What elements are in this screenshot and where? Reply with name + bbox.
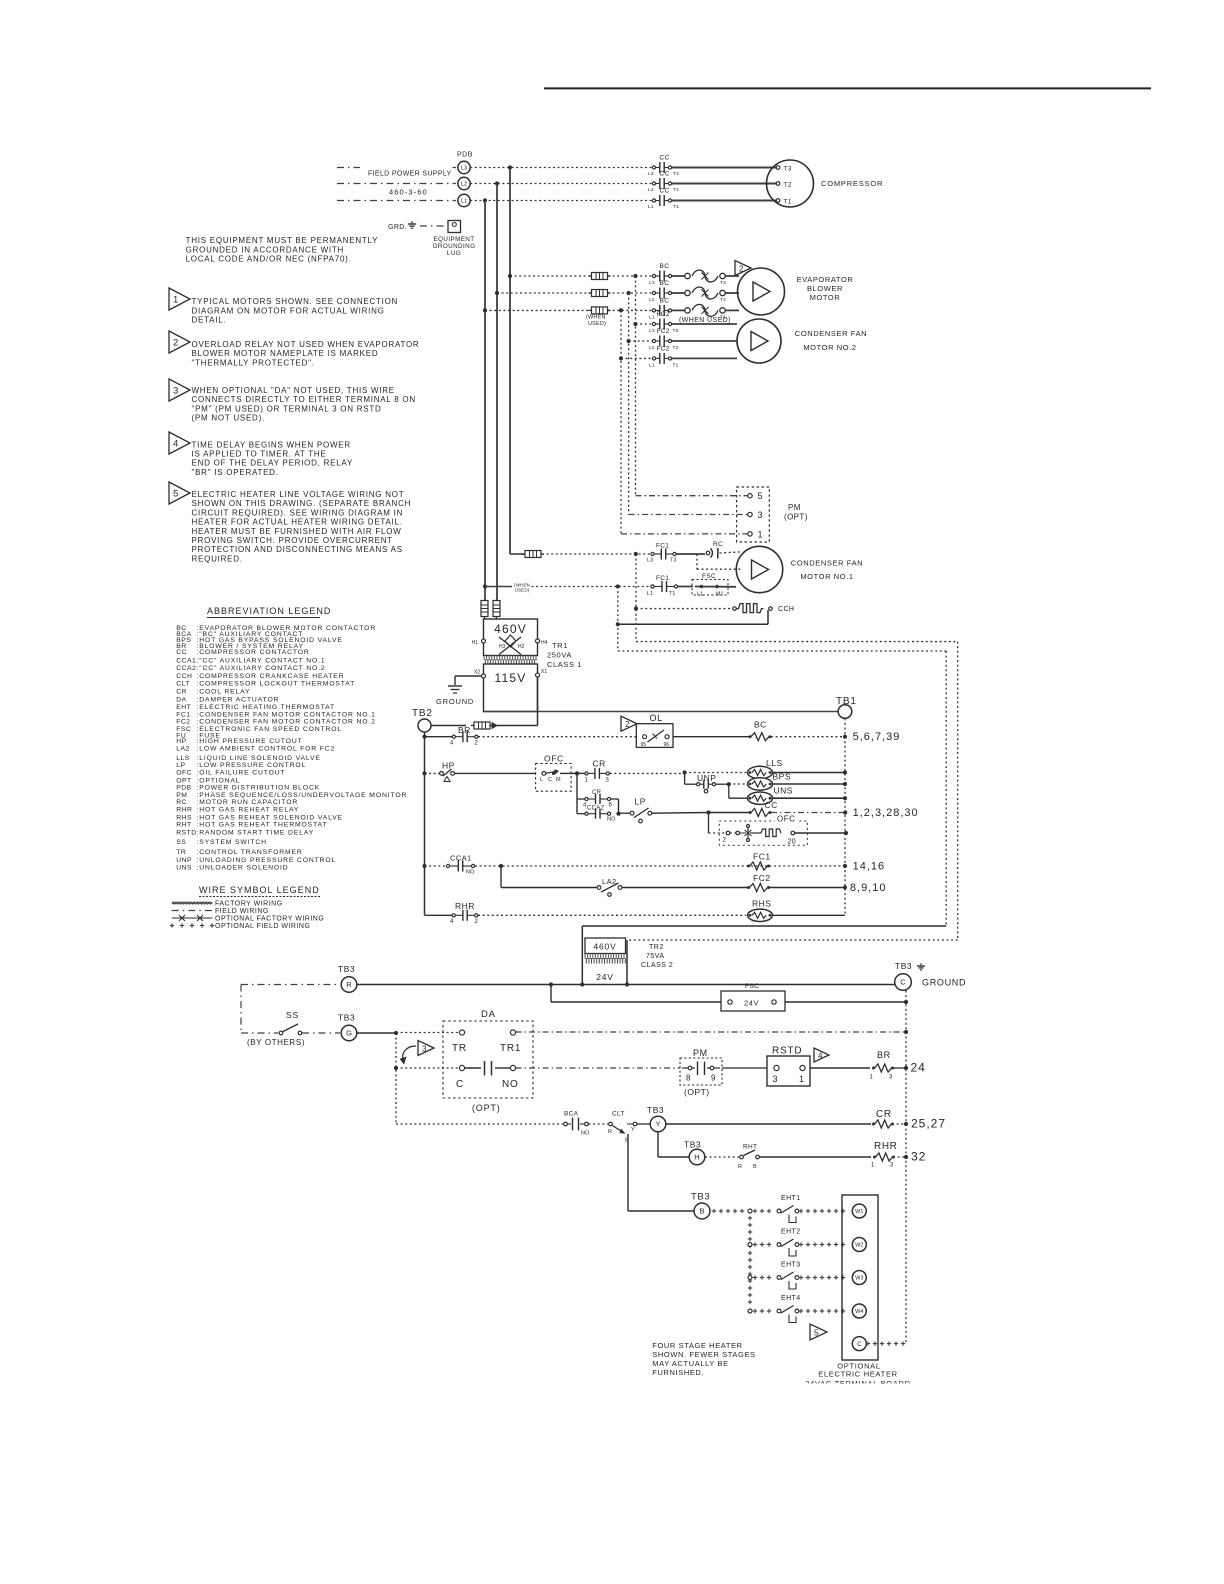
- svg-text:REQUIRED.: REQUIRED.: [192, 554, 243, 563]
- svg-text::RANDOM START TIME DELAY: :RANDOM START TIME DELAY: [197, 830, 315, 837]
- svg-text:2: 2: [625, 720, 630, 729]
- svg-text:UNP: UNP: [176, 857, 192, 864]
- svg-text:NO: NO: [581, 1131, 590, 1137]
- svg-text:3: 3: [173, 385, 178, 396]
- svg-text:OFC: OFC: [544, 754, 564, 764]
- svg-text:RSTD: RSTD: [176, 830, 197, 837]
- svg-text:CLT: CLT: [612, 1111, 625, 1118]
- svg-text::HOT GAS REHEAT THERMOSTAT: :HOT GAS REHEAT THERMOSTAT: [197, 822, 328, 829]
- svg-text:CCA1: CCA1: [450, 854, 472, 863]
- svg-text:CIRCUIT REQUIRED). SEE WIRING: CIRCUIT REQUIRED). SEE WIRING DIAGRAM IN: [192, 508, 404, 517]
- svg-text:14,16: 14,16: [853, 861, 886, 873]
- svg-text:OL: OL: [650, 713, 663, 723]
- svg-text::"CC" AUXILIARY CONTACT NO.1: :"CC" AUXILIARY CONTACT NO.1: [197, 658, 326, 665]
- svg-text:W4: W4: [855, 1309, 863, 1315]
- svg-text:BC: BC: [660, 280, 670, 287]
- svg-text:T1: T1: [673, 204, 679, 210]
- svg-text:FC2: FC2: [657, 346, 670, 353]
- svg-text:T3: T3: [673, 171, 679, 177]
- svg-text:L1: L1: [648, 204, 654, 210]
- svg-text:(OPT): (OPT): [684, 1087, 710, 1097]
- svg-text:CR: CR: [593, 759, 606, 769]
- svg-text:PM: PM: [788, 503, 801, 512]
- svg-text:2: 2: [739, 264, 744, 273]
- svg-text:CLASS 2: CLASS 2: [641, 962, 673, 969]
- svg-text:R: R: [608, 1129, 612, 1135]
- svg-text:RC: RC: [176, 799, 187, 806]
- svg-text::POWER DISTRIBUTION BLOCK: :POWER DISTRIBUTION BLOCK: [197, 785, 321, 792]
- svg-text:RHR: RHR: [874, 1141, 897, 1152]
- svg-text:6: 6: [609, 803, 613, 809]
- svg-text:ABBREVIATION LEGEND: ABBREVIATION LEGEND: [207, 606, 331, 616]
- svg-text:BLOWER: BLOWER: [807, 284, 843, 293]
- svg-text:EHT4: EHT4: [781, 1295, 801, 1302]
- svg-text:GROUNDING: GROUNDING: [433, 243, 476, 250]
- svg-text:8,9,10: 8,9,10: [850, 882, 887, 894]
- svg-text:EHT: EHT: [176, 704, 191, 711]
- svg-text:L1: L1: [461, 199, 467, 205]
- svg-text:1,2,3,28,30: 1,2,3,28,30: [853, 807, 919, 819]
- svg-text:MAY ACTUALLY BE: MAY ACTUALLY BE: [652, 1359, 728, 1368]
- svg-text:EVAPORATOR: EVAPORATOR: [797, 275, 854, 284]
- svg-text:OFC: OFC: [777, 815, 795, 824]
- svg-text:OPTIONAL FACTORY WIRING: OPTIONAL FACTORY WIRING: [215, 916, 324, 923]
- svg-text::UNLOADER SOLENOID: :UNLOADER SOLENOID: [197, 865, 289, 872]
- svg-text:CCH: CCH: [176, 673, 192, 680]
- svg-text:M1: M1: [716, 592, 724, 598]
- svg-text:20: 20: [788, 839, 796, 846]
- svg-text::OIL FAILURE CUTOUT: :OIL FAILURE CUTOUT: [197, 769, 286, 776]
- svg-text:8: 8: [686, 1074, 691, 1083]
- svg-text:T2: T2: [673, 187, 679, 193]
- svg-text:L1: L1: [649, 362, 655, 368]
- svg-text:T3: T3: [670, 558, 676, 564]
- svg-text:4: 4: [450, 740, 454, 746]
- svg-text:LOCAL CODE AND/OR NEC (NFPA70): LOCAL CODE AND/OR NEC (NFPA70).: [186, 255, 352, 264]
- svg-text:CCA2: CCA2: [587, 806, 605, 812]
- svg-text:LUG: LUG: [447, 250, 461, 257]
- svg-text:M: M: [556, 777, 561, 783]
- svg-text:TYPICAL MOTORS SHOWN. SEE CONN: TYPICAL MOTORS SHOWN. SEE CONNECTION: [192, 297, 399, 306]
- svg-text:B: B: [753, 1164, 757, 1170]
- svg-text:32: 32: [911, 1150, 926, 1164]
- svg-text:T1: T1: [673, 362, 679, 368]
- svg-text:PDB: PDB: [176, 785, 191, 792]
- svg-text:CCH: CCH: [778, 606, 794, 613]
- svg-text:DIAGRAM ON MOTOR FOR ACTUAL WI: DIAGRAM ON MOTOR FOR ACTUAL WIRING: [192, 306, 385, 315]
- svg-text:GRD.: GRD.: [388, 224, 407, 231]
- svg-text:(WHEN USED): (WHEN USED): [679, 317, 731, 324]
- svg-text:TIME DELAY BEGINS WHEN POWER: TIME DELAY BEGINS WHEN POWER: [192, 440, 351, 449]
- svg-text:OVERLOAD RELAY NOT USED WHEN E: OVERLOAD RELAY NOT USED WHEN EVAPORATOR: [192, 340, 420, 349]
- svg-text:HP: HP: [442, 761, 455, 771]
- svg-text::SYSTEM SWITCH: :SYSTEM SWITCH: [197, 839, 267, 846]
- svg-text:24: 24: [911, 1061, 926, 1075]
- svg-text:W2: W2: [855, 1243, 863, 1249]
- svg-text:WIRE SYMBOL LEGEND: WIRE SYMBOL LEGEND: [199, 885, 320, 895]
- svg-text:H2: H2: [518, 644, 525, 650]
- svg-text::ELECTRIC HEATING THERMOSTAT: :ELECTRIC HEATING THERMOSTAT: [197, 704, 335, 711]
- svg-text:FURNISHED.: FURNISHED.: [652, 1368, 704, 1377]
- svg-text:5: 5: [173, 488, 178, 499]
- svg-text::HIGH PRESSURE CUTOUT: :HIGH PRESSURE CUTOUT: [197, 738, 303, 745]
- svg-text::COMPRESSOR CRANKCASE HEATER: :COMPRESSOR CRANKCASE HEATER: [197, 673, 345, 680]
- svg-text:24V: 24V: [744, 998, 759, 1007]
- svg-text:SS: SS: [176, 839, 186, 846]
- svg-text:SS: SS: [286, 1010, 299, 1020]
- svg-text:115V: 115V: [495, 671, 527, 685]
- svg-text:460V: 460V: [494, 622, 527, 636]
- svg-text:CR: CR: [592, 790, 602, 796]
- svg-text:ELECTRIC HEATER LINE VOLTAGE W: ELECTRIC HEATER LINE VOLTAGE WIRING NOT: [192, 490, 405, 499]
- svg-text:RHT: RHT: [743, 1144, 757, 1151]
- svg-text:LLS: LLS: [176, 755, 190, 762]
- svg-text:CC: CC: [660, 171, 670, 178]
- svg-text:3: 3: [889, 1075, 893, 1081]
- svg-text:CC: CC: [765, 800, 778, 810]
- svg-text:FACTORY WIRING: FACTORY WIRING: [215, 901, 283, 908]
- svg-text:X2: X2: [474, 670, 480, 676]
- svg-text:FIELD WIRING: FIELD WIRING: [215, 908, 269, 915]
- svg-text:EHT1: EHT1: [781, 1195, 801, 1202]
- svg-text::CONDENSER FAN MOTOR CONTACTOR: :CONDENSER FAN MOTOR CONTACTOR NO.1: [197, 711, 376, 718]
- svg-text:DA: DA: [176, 697, 186, 704]
- svg-text:HEATER MUST BE FURNISHED WITH: HEATER MUST BE FURNISHED WITH AIR FLOW: [192, 527, 402, 536]
- svg-text:4: 4: [818, 1051, 823, 1060]
- svg-text:FC1: FC1: [176, 711, 190, 718]
- svg-text:FC2: FC2: [657, 311, 670, 318]
- svg-text::COOL RELAY: :COOL RELAY: [197, 688, 251, 695]
- svg-text:C: C: [857, 1342, 862, 1348]
- svg-text:END OF THE DELAY PERIOD, RELAY: END OF THE DELAY PERIOD, RELAY: [192, 459, 354, 468]
- svg-text::"CC" AUXILIARY CONTACT NO.2: :"CC" AUXILIARY CONTACT NO.2: [197, 665, 326, 672]
- svg-text:4: 4: [173, 438, 178, 449]
- svg-text:BC: BC: [660, 298, 670, 305]
- svg-text:(OPT): (OPT): [784, 513, 808, 522]
- svg-text:(OPT): (OPT): [472, 1103, 501, 1113]
- svg-text:OPT: OPT: [176, 777, 191, 784]
- svg-text:W3: W3: [855, 1276, 863, 1282]
- svg-text:TR1: TR1: [552, 641, 568, 650]
- svg-text:HEATER FOR ACTUAL HEATER WIRIN: HEATER FOR ACTUAL HEATER WIRING DETAIL.: [192, 518, 403, 527]
- svg-text:FC1: FC1: [753, 852, 771, 862]
- svg-text:L1: L1: [647, 591, 653, 597]
- svg-text:L2: L2: [649, 297, 655, 303]
- svg-text:SHOWN ON THIS DRAWING. (SEPARA: SHOWN ON THIS DRAWING. (SEPARATE BRANCH: [192, 499, 412, 508]
- svg-text:L3: L3: [647, 558, 653, 564]
- svg-text:1: 1: [871, 1163, 875, 1169]
- svg-text:1: 1: [585, 777, 589, 783]
- svg-text:BC: BC: [754, 720, 767, 730]
- svg-text:BPS: BPS: [773, 772, 792, 782]
- svg-text:T3: T3: [673, 328, 679, 334]
- svg-text:OFC: OFC: [176, 769, 192, 776]
- svg-text:CONDENSER FAN: CONDENSER FAN: [791, 559, 863, 568]
- svg-text:BC: BC: [660, 263, 670, 270]
- svg-text:CCA2: CCA2: [176, 665, 196, 672]
- svg-text:Y: Y: [655, 1120, 660, 1129]
- svg-text:W1: W1: [855, 1209, 863, 1215]
- svg-text:EQUIPMENT: EQUIPMENT: [433, 236, 474, 243]
- svg-text:T1: T1: [784, 199, 792, 206]
- svg-text:MOTOR NO.2: MOTOR NO.2: [803, 343, 856, 352]
- svg-text:T1: T1: [669, 591, 675, 597]
- svg-text:PROVING SWITCH. PROVIDE OVERCU: PROVING SWITCH. PROVIDE OVERCURRENT: [192, 536, 393, 545]
- svg-text::OPTIONAL: :OPTIONAL: [197, 777, 241, 784]
- svg-text:TB2: TB2: [412, 708, 433, 719]
- svg-text:"THERMALLY PROTECTED".: "THERMALLY PROTECTED".: [192, 358, 315, 367]
- svg-text:CCA1: CCA1: [176, 658, 196, 665]
- svg-text:USED): USED): [515, 587, 530, 592]
- svg-text:TB3: TB3: [684, 1140, 701, 1150]
- svg-text:250VA: 250VA: [547, 651, 572, 660]
- svg-text:1: 1: [799, 1074, 804, 1084]
- svg-text:B: B: [699, 1207, 704, 1216]
- svg-text::COMPRESSOR LOCKOUT THERMOSTAT: :COMPRESSOR LOCKOUT THERMOSTAT: [197, 681, 356, 688]
- svg-text:ELECTRIC HEATER: ELECTRIC HEATER: [818, 1370, 898, 1379]
- svg-text:3: 3: [758, 510, 763, 520]
- svg-text:EHT3: EHT3: [781, 1262, 801, 1269]
- svg-text:BCA: BCA: [564, 1111, 579, 1118]
- svg-text:25,27: 25,27: [911, 1117, 946, 1131]
- svg-text:NO: NO: [466, 870, 475, 876]
- svg-text:5: 5: [814, 1327, 819, 1337]
- svg-text:TR1: TR1: [500, 1043, 521, 1054]
- svg-text::LIQUID LINE SOLENOID VALVE: :LIQUID LINE SOLENOID VALVE: [197, 755, 321, 762]
- svg-text:460V: 460V: [593, 942, 616, 952]
- svg-text::MOTOR RUN CAPACITOR: :MOTOR RUN CAPACITOR: [197, 799, 299, 806]
- svg-text:9: 9: [711, 1074, 716, 1083]
- svg-text::LOW PRESSURE CONTROL: :LOW PRESSURE CONTROL: [197, 762, 307, 769]
- svg-text:C: C: [900, 978, 906, 987]
- svg-text:L1: L1: [649, 314, 655, 320]
- svg-text:CC: CC: [660, 155, 670, 162]
- svg-text:CR: CR: [176, 688, 187, 695]
- svg-text:R: R: [346, 980, 352, 989]
- svg-text:TB3: TB3: [691, 1192, 710, 1203]
- svg-text:DETAIL.: DETAIL.: [192, 316, 227, 325]
- svg-text:BR: BR: [877, 1050, 891, 1060]
- svg-text:RHS: RHS: [176, 814, 192, 821]
- svg-text:MOTOR NO.1: MOTOR NO.1: [800, 572, 853, 581]
- svg-text:L2: L2: [648, 187, 654, 193]
- svg-text:FC1: FC1: [656, 575, 669, 582]
- svg-text:L3: L3: [649, 328, 655, 334]
- svg-text:BR: BR: [458, 725, 471, 735]
- svg-text:R: R: [738, 1164, 742, 1170]
- svg-text:H4: H4: [541, 640, 548, 646]
- svg-text:L3: L3: [461, 166, 467, 172]
- svg-text:X1: X1: [541, 669, 547, 675]
- svg-text:CR: CR: [876, 1109, 892, 1120]
- svg-text:24V: 24V: [596, 972, 614, 982]
- svg-text:C: C: [456, 1079, 464, 1090]
- svg-text:PM: PM: [693, 1048, 708, 1058]
- svg-text:FOUR STAGE HEATER: FOUR STAGE HEATER: [652, 1341, 742, 1350]
- svg-text::PHASE SEQUENCE/LOSS/UNDERVOLT: :PHASE SEQUENCE/LOSS/UNDERVOLTAGE MONITO…: [197, 792, 408, 799]
- svg-text:WHEN OPTIONAL "DA" NOT USED, T: WHEN OPTIONAL "DA" NOT USED, THIS WIRE: [192, 386, 395, 395]
- svg-text:USED): USED): [588, 321, 606, 327]
- svg-text:FC2: FC2: [657, 328, 670, 335]
- svg-text:TR: TR: [176, 849, 186, 856]
- svg-text:L: L: [540, 777, 543, 783]
- svg-text:1: 1: [870, 1075, 874, 1081]
- svg-text:PM: PM: [176, 792, 187, 799]
- svg-text:TB3: TB3: [895, 961, 912, 971]
- svg-text:3: 3: [773, 1074, 778, 1084]
- svg-text:TB3: TB3: [338, 1013, 355, 1023]
- svg-text:CLASS 1: CLASS 1: [547, 660, 582, 669]
- svg-text:75VA: 75VA: [646, 953, 665, 960]
- svg-text:PROTECTION AND DISCONNECTING M: PROTECTION AND DISCONNECTING MEANS AS: [192, 545, 403, 554]
- svg-text:T2: T2: [720, 297, 726, 303]
- svg-text:SHOWN. FEWER STAGES: SHOWN. FEWER STAGES: [652, 1350, 755, 1359]
- svg-text:H: H: [694, 1153, 699, 1162]
- svg-text:4: 4: [450, 919, 454, 925]
- svg-text:GROUND: GROUND: [436, 697, 474, 706]
- svg-text:LLS: LLS: [766, 758, 783, 768]
- svg-text:L2: L2: [649, 345, 655, 351]
- svg-text:T2: T2: [673, 345, 679, 351]
- svg-text:2: 2: [475, 740, 479, 746]
- svg-text:TR2: TR2: [649, 944, 664, 951]
- svg-text:L3: L3: [648, 171, 654, 177]
- svg-text:THIS EQUIPMENT MUST BE PERMANE: THIS EQUIPMENT MUST BE PERMANENTLY: [186, 236, 379, 245]
- svg-text::HOT GAS REHEAT SOLENOID VALVE: :HOT GAS REHEAT SOLENOID VALVE: [197, 814, 344, 821]
- svg-text:LA2: LA2: [176, 746, 190, 753]
- svg-text:NO: NO: [502, 1079, 519, 1090]
- svg-text:UNS: UNS: [176, 865, 192, 872]
- svg-text:LP: LP: [176, 762, 185, 769]
- svg-text:1: 1: [173, 294, 178, 305]
- svg-text:TR: TR: [452, 1043, 467, 1054]
- svg-text:L2: L2: [461, 182, 467, 188]
- svg-text:FC1: FC1: [656, 543, 669, 550]
- svg-text:2: 2: [475, 919, 479, 925]
- svg-text:IS APPLIED TO TIMER. AT THE: IS APPLIED TO TIMER. AT THE: [192, 450, 327, 459]
- svg-text:UNP: UNP: [697, 773, 716, 783]
- svg-text:"PM" (PM USED) OR TERMINAL 3 O: "PM" (PM USED) OR TERMINAL 3 ON RSTD: [192, 404, 382, 413]
- svg-text:PDB: PDB: [457, 152, 473, 159]
- svg-text:2: 2: [723, 838, 727, 844]
- svg-text:FSC: FSC: [702, 573, 716, 580]
- svg-text:C: C: [548, 777, 552, 783]
- svg-text:G: G: [346, 1029, 352, 1038]
- svg-text:BLOWER MOTOR NAMEPLATE IS MARK: BLOWER MOTOR NAMEPLATE IS MARKED: [192, 349, 379, 358]
- svg-text::CONTROL TRANSFORMER: :CONTROL TRANSFORMER: [197, 849, 303, 856]
- svg-text:TB3: TB3: [338, 964, 355, 974]
- svg-text:"BR" IS OPERATED.: "BR" IS OPERATED.: [192, 468, 279, 477]
- svg-text:EHT2: EHT2: [781, 1229, 801, 1236]
- svg-text:CONDENSER FAN: CONDENSER FAN: [795, 329, 867, 338]
- svg-text:HP: HP: [176, 738, 186, 745]
- svg-text:1: 1: [758, 529, 763, 539]
- svg-text:CLT: CLT: [176, 681, 190, 688]
- svg-text:H3: H3: [499, 644, 506, 650]
- svg-text:CC: CC: [660, 188, 670, 195]
- svg-text:CONNECTS DIRECTLY TO EITHER TE: CONNECTS DIRECTLY TO EITHER TERMINAL 8 O…: [192, 395, 416, 404]
- svg-text:95: 95: [641, 742, 647, 748]
- svg-text:GROUNDED IN ACCORDANCE WITH: GROUNDED IN ACCORDANCE WITH: [186, 245, 344, 254]
- svg-text:T3: T3: [720, 280, 726, 286]
- svg-text:H1: H1: [472, 640, 479, 646]
- svg-text:DA: DA: [481, 1009, 496, 1020]
- svg-text:LA2: LA2: [602, 877, 617, 886]
- svg-text::UNLOADING PRESSURE CONTROL: :UNLOADING PRESSURE CONTROL: [197, 857, 337, 864]
- svg-text:GROUND: GROUND: [922, 978, 966, 988]
- svg-text:3: 3: [890, 1163, 894, 1169]
- svg-text:RHS: RHS: [752, 899, 771, 909]
- svg-text:RHR: RHR: [176, 807, 192, 814]
- svg-text:3: 3: [422, 1044, 427, 1053]
- svg-text:RSTD: RSTD: [772, 1046, 802, 1057]
- svg-text:5: 5: [758, 491, 763, 501]
- svg-text:460-3-60: 460-3-60: [389, 188, 428, 197]
- svg-text:L3: L3: [649, 280, 655, 286]
- svg-text:3: 3: [606, 777, 610, 783]
- svg-text:L1: L1: [697, 592, 703, 598]
- svg-text:(BY OTHERS): (BY OTHERS): [247, 1038, 305, 1047]
- svg-text:NO: NO: [607, 817, 616, 823]
- svg-text:T3: T3: [784, 166, 792, 173]
- svg-text:COMPRESSOR: COMPRESSOR: [821, 179, 883, 188]
- svg-text:FSC: FSC: [745, 983, 759, 990]
- svg-text::DAMPER ACTUATOR: :DAMPER ACTUATOR: [197, 697, 280, 704]
- svg-text:96: 96: [664, 742, 670, 748]
- svg-text:FC2: FC2: [176, 719, 190, 726]
- svg-text:UNS: UNS: [774, 786, 793, 796]
- svg-text:TB3: TB3: [647, 1105, 664, 1115]
- svg-text:RHT: RHT: [176, 822, 191, 829]
- svg-text:FC2: FC2: [753, 873, 771, 883]
- svg-text:CC: CC: [176, 649, 187, 656]
- svg-text::HOT GAS REHEAT RELAY: :HOT GAS REHEAT RELAY: [197, 807, 300, 814]
- svg-text:MOTOR: MOTOR: [810, 293, 841, 302]
- svg-text:2: 2: [173, 337, 178, 348]
- svg-text:T2: T2: [784, 182, 792, 189]
- svg-text::COMPRESSOR CONTACTOR: :COMPRESSOR CONTACTOR: [197, 649, 310, 656]
- svg-text::CONDENSER FAN MOTOR CONTACTOR: :CONDENSER FAN MOTOR CONTACTOR NO.2: [197, 719, 376, 726]
- svg-text:RC: RC: [713, 541, 723, 548]
- svg-text:RHR: RHR: [455, 901, 475, 911]
- svg-text:FIELD POWER SUPPLY: FIELD POWER SUPPLY: [368, 171, 452, 178]
- svg-text:(WHEN: (WHEN: [586, 315, 606, 321]
- svg-text:Y: Y: [631, 1127, 635, 1133]
- svg-text:OPTIONAL FIELD WIRING: OPTIONAL FIELD WIRING: [215, 923, 310, 930]
- svg-text::LOW AMBIENT CONTROL FOR FC2: :LOW AMBIENT CONTROL FOR FC2: [197, 746, 336, 753]
- svg-text:5,6,7,39: 5,6,7,39: [853, 731, 901, 743]
- svg-text:(PM NOT USED).: (PM NOT USED).: [192, 414, 265, 423]
- svg-text:LP: LP: [635, 797, 646, 807]
